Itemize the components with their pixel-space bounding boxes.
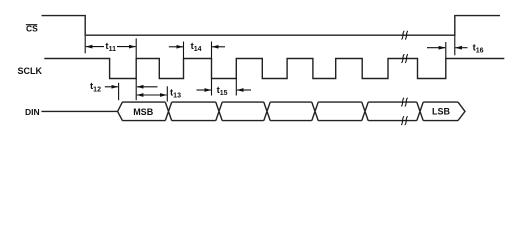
wire: DIN idle line xyxy=(41,110,117,112)
DIN bus crossover X3 xyxy=(264,102,270,121)
DIN bus crossover X1 xyxy=(165,102,171,121)
t15 dimension: left outside arrow xyxy=(197,89,211,91)
break symbol on DIN top rail xyxy=(401,98,408,106)
wire: SCLK waveform xyxy=(44,59,504,79)
t13 dimension: tick at DIN first crossover xyxy=(166,86,168,101)
DIN bus outline: opening taper xyxy=(118,102,123,121)
DIN bus crossover X5 xyxy=(362,102,368,121)
svg-text:t11: t11 xyxy=(105,41,116,53)
svg-text:DIN: DIN xyxy=(25,107,40,117)
svg-text:t12: t12 xyxy=(90,81,101,93)
svg-text:t15: t15 xyxy=(217,85,228,97)
t12 dimension: tick at DIN data start xyxy=(118,83,120,100)
t15 dimension: tick extension of SCLK rising edge (down) xyxy=(235,79,237,96)
svg-text:LSB: LSB xyxy=(432,107,451,117)
DIN bus closing taper after LSB xyxy=(458,102,465,121)
DIN bus crossover X2 xyxy=(216,102,222,121)
svg-text:t16: t16 xyxy=(473,43,484,55)
svg-text:t14: t14 xyxy=(191,41,202,53)
t12 dimension: left outside arrow xyxy=(105,86,118,88)
t16 dimension: tick extension of CS rising edge (down) xyxy=(454,35,456,55)
DIN bus outline: bottom rail segments xyxy=(122,120,458,122)
DIN bus outline: top rail segments xyxy=(122,101,458,103)
t14 dimension: tick extension of SCLK falling edge (up) xyxy=(211,42,213,59)
wire: CS waveform xyxy=(42,16,501,36)
break symbol on DIN bottom rail xyxy=(401,116,408,124)
t11 dimension: double-headed arrow (split by label) xyxy=(86,46,104,48)
t13 dimension: double-headed arrow xyxy=(137,94,167,96)
svg-text:SCLK: SCLK xyxy=(18,66,43,76)
svg-text:t13: t13 xyxy=(170,88,181,100)
signal label CS (with overline) xyxy=(26,24,38,34)
t15 dimension: tick extension of SCLK falling edge (down) xyxy=(211,79,213,96)
t14 dimension: left outside arrow xyxy=(169,46,183,48)
DIN bus crossover X6 xyxy=(417,102,423,121)
DIN bus crossover X4 xyxy=(312,102,318,121)
t16 dimension: left outside arrow xyxy=(427,47,445,49)
svg-text:MSB: MSB xyxy=(133,107,154,117)
t16 dimension: right outside arrow xyxy=(455,47,467,49)
t11 dimension: tick extensions of SCLK rising edge 1 xyxy=(135,38,137,58)
break symbol on SCLK high line xyxy=(401,54,408,62)
t14 dimension: tick extension of SCLK rising edge 2 xyxy=(183,42,185,59)
break symbol on CS low line xyxy=(401,31,408,39)
t11 dimension: tick at CS falling edge xyxy=(84,36,86,54)
t12 dimension: right outside arrow xyxy=(137,86,158,88)
t15 dimension: right outside arrow xyxy=(237,89,251,91)
t14 dimension: right outside arrow xyxy=(212,46,225,48)
t16 dimension: tick extension of SCLK last rising edge (up) xyxy=(445,42,447,59)
